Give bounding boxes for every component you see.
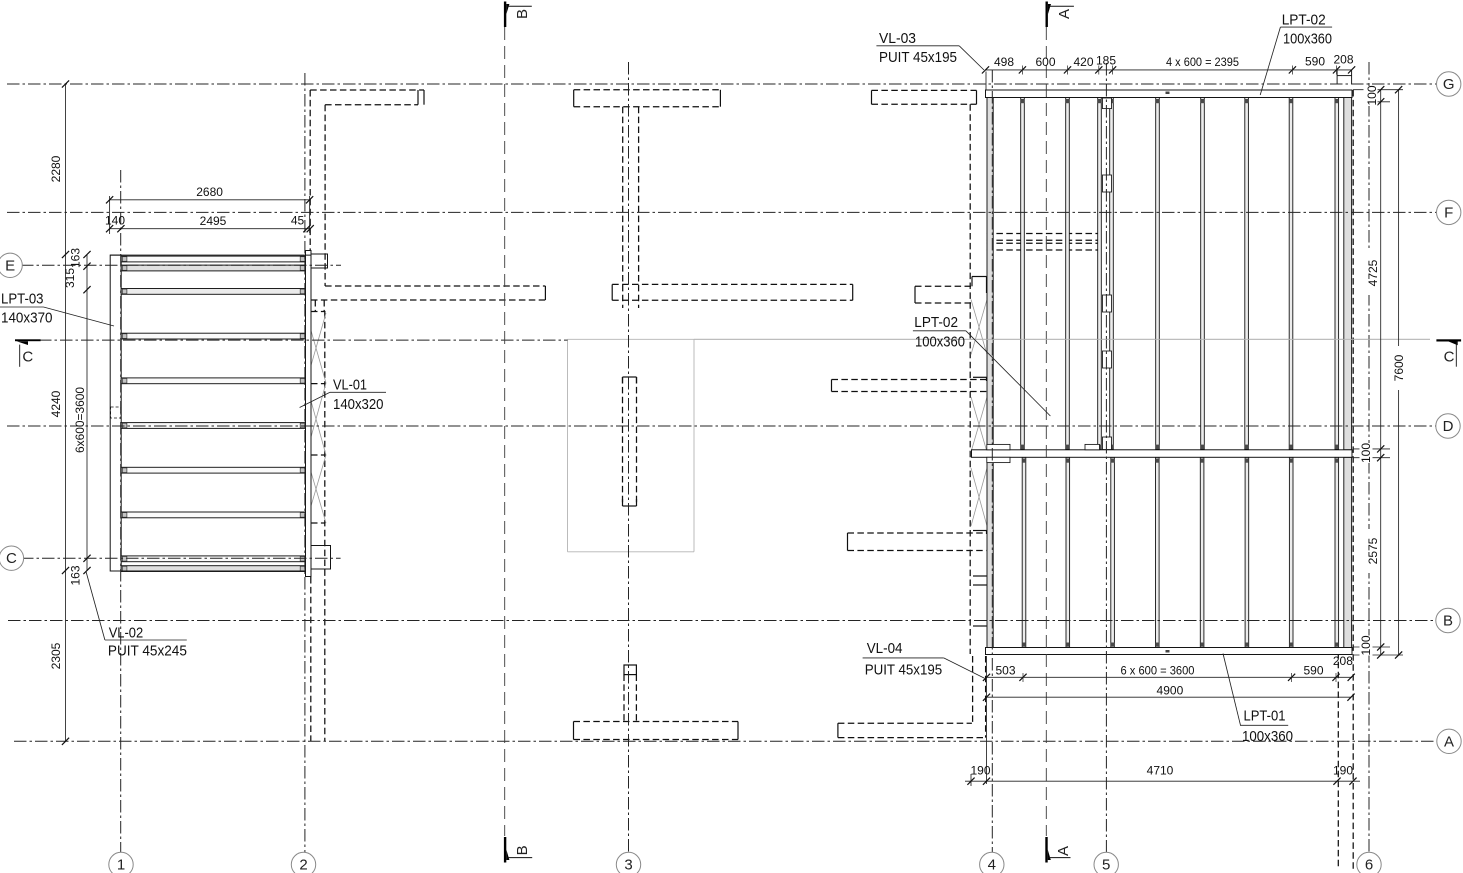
svg-text:190: 190 [970, 764, 990, 778]
svg-text:D: D [1443, 418, 1454, 435]
svg-text:208: 208 [1333, 53, 1353, 67]
svg-text:163: 163 [69, 248, 83, 268]
svg-text:190: 190 [1333, 764, 1353, 778]
svg-text:B: B [514, 9, 531, 19]
svg-text:LPT-02: LPT-02 [914, 314, 958, 331]
svg-text:4725: 4725 [1366, 259, 1380, 286]
svg-text:4: 4 [988, 857, 996, 873]
svg-text:503: 503 [995, 664, 1015, 678]
svg-text:498: 498 [994, 55, 1014, 69]
svg-text:7600: 7600 [1392, 354, 1406, 381]
svg-text:590: 590 [1303, 664, 1323, 678]
svg-text:420: 420 [1073, 55, 1093, 69]
svg-text:A: A [1056, 9, 1073, 19]
svg-text:4900: 4900 [1157, 684, 1184, 698]
svg-text:100x360: 100x360 [915, 334, 965, 351]
svg-text:VL-04: VL-04 [867, 640, 903, 657]
svg-text:E: E [5, 257, 15, 274]
svg-text:140x370: 140x370 [1, 310, 53, 327]
svg-text:2680: 2680 [196, 185, 223, 199]
svg-text:1: 1 [117, 857, 125, 873]
svg-text:100: 100 [1365, 85, 1379, 105]
svg-text:6x600=3600: 6x600=3600 [73, 387, 87, 453]
svg-text:LPT-02: LPT-02 [1282, 12, 1326, 29]
svg-text:4240: 4240 [49, 390, 63, 417]
svg-text:2: 2 [299, 857, 307, 873]
svg-text:F: F [1444, 204, 1453, 221]
svg-text:4710: 4710 [1147, 764, 1174, 778]
svg-text:C: C [6, 550, 17, 567]
svg-text:LPT-03: LPT-03 [1, 291, 44, 308]
svg-text:600: 600 [1035, 55, 1055, 69]
svg-text:6: 6 [1365, 857, 1373, 873]
svg-text:100: 100 [1359, 443, 1373, 463]
svg-text:VL-03: VL-03 [879, 30, 916, 47]
svg-text:G: G [1443, 76, 1455, 93]
svg-text:2495: 2495 [200, 214, 227, 228]
svg-text:100x360: 100x360 [1242, 728, 1293, 745]
svg-text:A: A [1444, 733, 1454, 750]
svg-text:VL-02: VL-02 [109, 625, 144, 642]
svg-text:140: 140 [105, 214, 125, 228]
svg-text:5: 5 [1102, 857, 1110, 873]
svg-text:C: C [22, 349, 33, 366]
svg-text:A: A [1055, 846, 1072, 856]
svg-text:100: 100 [1359, 635, 1373, 655]
svg-text:3: 3 [624, 857, 632, 873]
svg-text:6 x 600 = 3600: 6 x 600 = 3600 [1121, 664, 1195, 678]
svg-text:4 x 600 = 2395: 4 x 600 = 2395 [1166, 55, 1239, 69]
svg-text:PUIT 45x195: PUIT 45x195 [865, 662, 943, 679]
svg-text:2305: 2305 [49, 642, 63, 669]
svg-text:VL-01: VL-01 [333, 377, 367, 394]
svg-text:315: 315 [63, 268, 77, 288]
svg-text:LPT-01: LPT-01 [1244, 708, 1286, 725]
svg-text:208: 208 [1333, 654, 1353, 668]
svg-text:PUIT 45x195: PUIT 45x195 [879, 49, 957, 66]
svg-text:C: C [1444, 349, 1455, 366]
svg-text:100x360: 100x360 [1283, 31, 1332, 48]
svg-text:PUIT 45x245: PUIT 45x245 [108, 643, 187, 660]
svg-text:590: 590 [1305, 55, 1325, 69]
svg-text:163: 163 [69, 565, 83, 585]
svg-text:2280: 2280 [49, 155, 63, 182]
svg-text:185: 185 [1096, 54, 1116, 68]
svg-text:B: B [1443, 613, 1453, 630]
svg-text:B: B [514, 845, 531, 855]
svg-text:140x320: 140x320 [333, 396, 384, 413]
svg-text:2575: 2575 [1366, 537, 1380, 564]
svg-text:45: 45 [291, 214, 305, 228]
